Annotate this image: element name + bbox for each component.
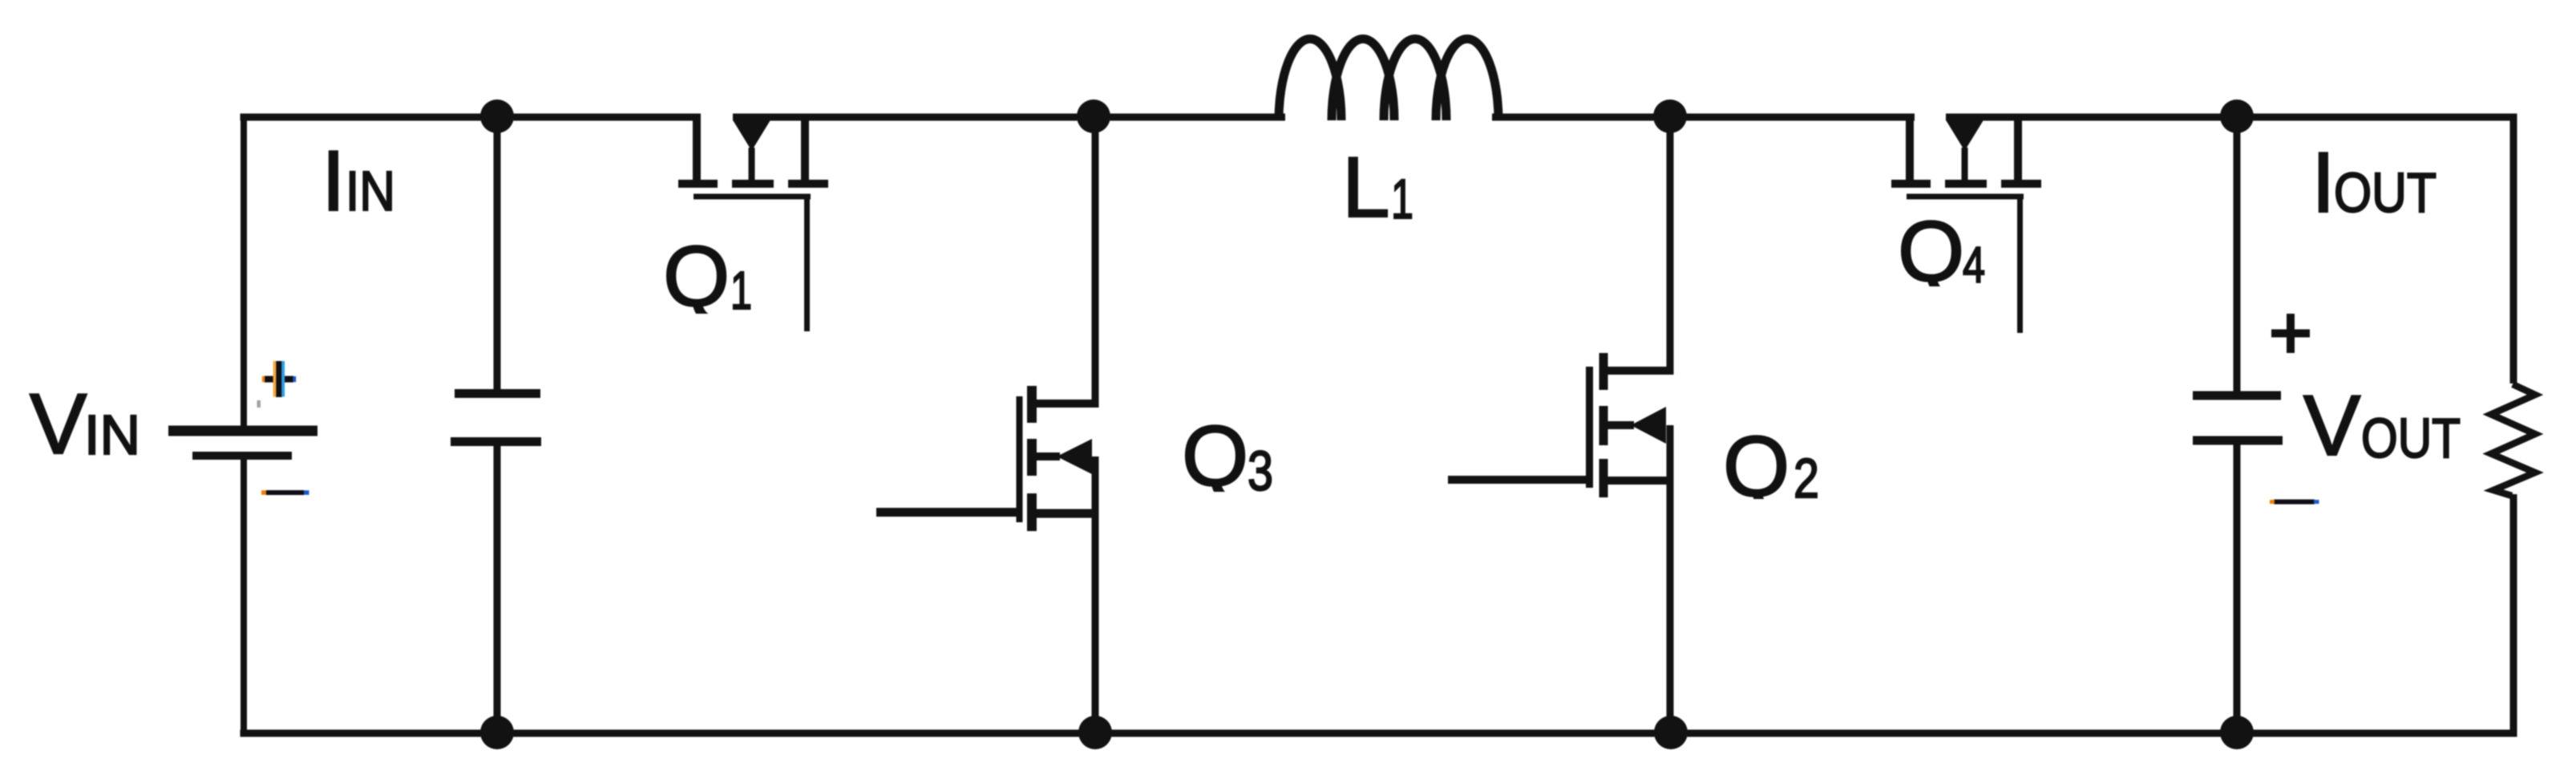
Q1 source channel tick [788,180,828,188]
wire top rail segment 2 (Q1 source to inductor) [733,114,1285,121]
wire bottom rail [241,730,2517,737]
wire input capacitor top lead [494,117,501,393]
wire top rail segment 3 (inductor to Q4 drain) [1492,114,1915,121]
battery minus sign [266,490,304,495]
svg-text:L: L [1342,139,1390,235]
Q3 drain channel tick [1027,386,1037,423]
battery plus chroma fringe blue [281,361,285,397]
svg-text:1: 1 [730,261,752,321]
transistor Q2 (N-channel, vertical) [1448,117,1674,733]
Q3 gate lead [876,508,1019,517]
Q1 gate bar [694,194,811,200]
svg-text:Q: Q [663,228,730,324]
Q4 source channel tick [2001,180,2041,188]
Q2 body arrow [1631,407,1666,444]
svg-text:Q: Q [1898,203,1964,299]
Q4 body channel tick [1945,180,1987,188]
Q3 drain lead horizontal [1032,400,1099,408]
node output cap top junction [2220,99,2254,133]
Q3 body lead [1033,452,1060,460]
wire right branch lower [2510,494,2517,737]
wire left branch upper (Vin + terminal) [241,114,247,432]
Q4 source stub [2014,117,2022,180]
stray speck artifact [257,400,261,408]
battery plus chroma fringe orange [273,361,277,397]
node Q3 source bottom junction [1078,716,1112,749]
Q3 source channel tick [1027,493,1037,531]
wire top rail segment 1 (Vin node to Q1 drain) [241,114,702,121]
transistor Q3 (N-channel, vertical) [876,117,1099,733]
svg-text:I: I [321,132,346,229]
transistor Q1 (P-channel, horizontal) [678,117,828,331]
Q2 gate lead [1448,476,1589,484]
Q1 body arrow [734,121,770,152]
Q1 gate lead [804,197,810,331]
Q1 drain stub [693,117,701,180]
Q2 drain lead vertical [1667,117,1674,371]
Q4 gate lead [2017,197,2023,333]
svg-text:IN: IN [84,404,140,466]
svg-text:V: V [30,375,87,472]
Q3 source lead vertical [1092,456,1099,733]
inductor L1 [1279,39,1498,120]
Q4 gate bar [1907,194,2024,200]
wire output capacitor bottom lead [2234,440,2241,733]
battery VIN long plate [168,426,317,436]
Q2 drain lead horizontal [1603,367,1674,375]
wire top rail segment 4 (Q4 source to output corner) [1946,114,2517,121]
Q3 body channel tick [1027,439,1037,476]
Q1 source stub [801,117,809,180]
svg-text:I: I [2311,134,2335,230]
Q2 source channel tick [1599,459,1608,497]
resistor Rload zigzag [2491,384,2535,496]
Q1 body neck [749,148,755,181]
wire output capacitor top lead [2234,117,2241,396]
node Q2 drain junction [1653,99,1687,133]
output minus sign [2274,500,2315,505]
capacitor Cout top plate [2193,391,2281,400]
svg-text:4: 4 [1963,237,1985,294]
node input cap bottom junction [480,716,514,749]
Q3 drain lead vertical [1092,117,1099,404]
svg-text:OUT: OUT [2361,407,2461,469]
output plus sign [2271,314,2310,353]
Q4 drain stub [1906,117,1914,180]
node input cap top junction [480,99,514,133]
Q4 drain channel tick [1891,180,1931,188]
Q2 gate bar [1586,367,1593,488]
Q4 body neck [1962,148,1968,181]
svg-text:3: 3 [1248,440,1273,502]
svg-text:1: 1 [1391,168,1413,230]
Q2 source lead vertical [1667,425,1674,733]
Q2 drain channel tick [1599,353,1608,390]
Q3 source lead horizontal [1032,509,1099,518]
Q1 body channel tick [732,180,774,188]
transistor Q4 (P-channel, horizontal) [1891,117,2041,333]
Q3 body arrow [1057,439,1092,474]
node Q3 drain junction [1077,99,1110,133]
svg-text:Q: Q [1182,408,1248,504]
capacitor Cin top plate [455,389,540,398]
Q1 drain channel tick [678,180,718,188]
Q2 source lead horizontal [1603,477,1674,485]
svg-text:2: 2 [1793,447,1819,509]
battery plus sign [265,361,294,397]
Q3 gate bar [1017,396,1023,522]
Q2 body lead [1605,421,1634,429]
svg-text:IN: IN [346,160,395,222]
wire left branch lower (Vin - terminal) [241,456,247,737]
Q2 body channel tick [1599,406,1608,445]
svg-text:OUT: OUT [2334,161,2436,224]
Q4 body arrow [1947,121,1984,152]
capacitor Cin bottom plate [451,437,541,446]
node Q2 source bottom junction [1654,716,1688,749]
node output cap bottom junction [2220,716,2254,749]
wire input capacitor bottom lead [494,441,501,733]
svg-text:V: V [2303,377,2360,473]
capacitor Cout bottom plate [2193,436,2283,445]
wire right branch upper [2510,114,2517,384]
battery VIN short plate [192,452,292,460]
